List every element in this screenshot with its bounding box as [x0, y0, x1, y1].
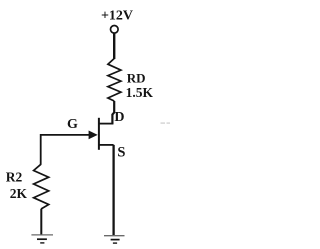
- svg-text:D: D: [114, 110, 124, 125]
- svg-text:1.5K: 1.5K: [126, 85, 154, 100]
- stray scan marks right of D: [161, 122, 171, 124]
- svg-text:2K: 2K: [10, 186, 28, 201]
- wire: RD to drain corner: [112, 101, 114, 124]
- svg-text:G: G: [67, 117, 78, 132]
- transistor Q1 gate arrowhead: [89, 131, 98, 140]
- transistor Q1 channel bar: [98, 118, 100, 150]
- svg-text:+12V: +12V: [101, 8, 133, 23]
- svg-text:R2: R2: [6, 169, 23, 184]
- resistor RD: [108, 59, 121, 102]
- resistor R2: [34, 164, 49, 209]
- wire: terminal to RD: [113, 33, 115, 59]
- svg-text:S: S: [117, 145, 125, 161]
- ground under R2: [31, 235, 53, 243]
- supply terminal (open circle): [111, 26, 119, 34]
- wire: gate to R2: [41, 135, 90, 165]
- svg-text:RD: RD: [127, 71, 146, 86]
- transistor Q1 drain lead: [99, 123, 113, 125]
- wire: R2 to ground: [40, 209, 42, 235]
- wire: source to ground: [112, 145, 114, 236]
- ground under source: [104, 236, 125, 243]
- transistor Q1 source lead: [99, 144, 114, 146]
